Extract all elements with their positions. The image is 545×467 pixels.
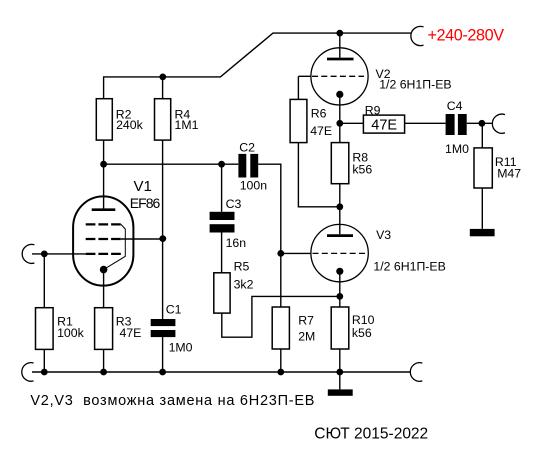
svg-text:16n: 16n bbox=[226, 236, 247, 250]
svg-text:M47: M47 bbox=[497, 167, 521, 181]
svg-text:47E: 47E bbox=[371, 118, 397, 134]
svg-text:V2,V3 возможна замена на 6Н23: V2,V3 возможна замена на 6Н23П-ЕВ bbox=[30, 393, 314, 409]
svg-text:1M1: 1M1 bbox=[175, 118, 199, 132]
svg-text:1/2 6Н1П-ЕВ: 1/2 6Н1П-ЕВ bbox=[379, 78, 451, 92]
svg-text:k56: k56 bbox=[352, 326, 372, 340]
svg-text:47E: 47E bbox=[310, 124, 332, 138]
svg-text:47E: 47E bbox=[120, 326, 142, 340]
svg-text:2M: 2M bbox=[298, 330, 315, 344]
svg-text:1/2 6Н1П-ЕВ: 1/2 6Н1П-ЕВ bbox=[373, 259, 445, 273]
svg-text:1M0: 1M0 bbox=[445, 142, 469, 156]
svg-text:100n: 100n bbox=[240, 178, 268, 192]
svg-text:100k: 100k bbox=[57, 326, 85, 340]
svg-text:R9: R9 bbox=[365, 103, 381, 117]
svg-text:+240-280V: +240-280V bbox=[428, 26, 505, 44]
svg-text:240k: 240k bbox=[116, 118, 144, 132]
svg-text:R5: R5 bbox=[234, 259, 250, 273]
svg-text:V3: V3 bbox=[376, 228, 391, 242]
svg-text:1M0: 1M0 bbox=[169, 341, 193, 355]
svg-text:C4: C4 bbox=[447, 99, 463, 113]
svg-text:C3: C3 bbox=[226, 197, 242, 211]
svg-text:R6: R6 bbox=[311, 107, 327, 121]
svg-text:СЮТ 2015-2022: СЮТ 2015-2022 bbox=[314, 426, 428, 443]
svg-text:C2: C2 bbox=[239, 140, 255, 154]
svg-text:R7: R7 bbox=[298, 314, 314, 328]
svg-text:EF86: EF86 bbox=[130, 195, 161, 211]
svg-text:3k2: 3k2 bbox=[234, 278, 254, 292]
svg-text:C1: C1 bbox=[166, 303, 182, 317]
svg-text:k56: k56 bbox=[352, 162, 372, 176]
svg-text:V1: V1 bbox=[134, 178, 152, 195]
